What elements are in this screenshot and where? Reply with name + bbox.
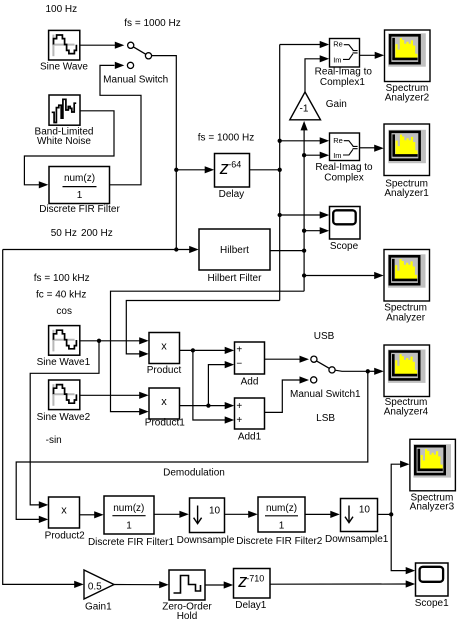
wire Delay1 to Scope1 input 2 [270, 580, 415, 587]
svg-text:Delay: Delay [219, 189, 245, 200]
block Delay z^-64 [215, 154, 250, 201]
wire Sine Wave to Manual Switch input 1 [80, 42, 125, 49]
gain Gain1 (0.5) triangle [84, 570, 114, 612]
block Spectrum Analyzer4 [384, 345, 430, 417]
manual switch Manual Switch [103, 42, 168, 85]
svg-text:Add1: Add1 [238, 431, 262, 442]
wire bus B to Spectrum Analyzer [304, 272, 384, 279]
svg-text:-710: -710 [246, 573, 264, 583]
block Scope [330, 207, 361, 252]
block Hilbert Filter [199, 229, 270, 284]
svg-text:Scope: Scope [330, 241, 359, 252]
svg-text:Product: Product [147, 365, 182, 376]
wire Product output to Add input 1 [180, 347, 235, 354]
wire bus A to Scope input 1 [280, 211, 330, 218]
junction Delay output on bus A [278, 168, 282, 172]
svg-text:Gain1: Gain1 [85, 601, 112, 612]
wire bus B bottom to Product1 input 2 [111, 291, 305, 415]
block Spectrum Analyzer1 [384, 124, 430, 199]
junction Product1 output [206, 403, 210, 407]
junction Hilbert input on switch bus [174, 247, 178, 251]
block Sine Wave (source) [40, 30, 88, 72]
svg-text:x: x [61, 505, 67, 517]
svg-text:Add: Add [241, 376, 259, 387]
junction bus B at Scope input 2 [302, 229, 306, 233]
svg-text:cos: cos [56, 306, 72, 317]
gain Gain (-1) triangle [290, 92, 347, 120]
wire Add output to Manual Switch1 input 1 [265, 356, 310, 363]
svg-text:10: 10 [359, 504, 371, 515]
svg-text:Analyzer: Analyzer [386, 313, 426, 324]
wire Real-Imag to Complex1 to Spectrum Analyzer2 [360, 52, 385, 59]
wire bus B vertical (Hilbert signal) [303, 129, 305, 292]
svg-text:Real-Imag to: Real-Imag to [315, 162, 373, 173]
wire horizontal into Hilbert Filter [3, 246, 199, 253]
wire Sine Wave2 to Product1 input 1 [80, 392, 149, 399]
svg-text:Im: Im [333, 151, 341, 160]
junction Manual Switch1 output [366, 369, 370, 373]
svg-text:Discrete FIR Filter1: Discrete FIR Filter1 [88, 537, 175, 548]
wire Gain output to Real-Imag to Complex1 Im input [305, 55, 329, 92]
svg-text:Scope1: Scope1 [415, 598, 449, 609]
wire cos carrier branch to Product2 input 1 [30, 341, 99, 509]
svg-text:fc = 40 kHz: fc = 40 kHz [36, 289, 86, 300]
svg-text:Complex1: Complex1 [320, 77, 365, 88]
annotation "50 Hz" "200 Hz" [51, 228, 113, 239]
block Product1 [145, 388, 185, 429]
svg-text:Im: Im [333, 55, 341, 64]
wire Discrete FIR Filter to Manual Switch input 2 [100, 62, 141, 185]
svg-text:Delay1: Delay1 [235, 600, 267, 611]
annotation "Demodulation" [163, 468, 225, 479]
wire to Spectrum Analyzer4 [368, 368, 384, 375]
wire Product output branch to Add1 input 2 [193, 350, 234, 423]
wire Hilbert output to bus B [270, 250, 304, 252]
svg-text:+: + [236, 401, 242, 412]
junction Hilbert output on bus B [302, 248, 306, 252]
wire Zero-Order Hold to Delay1 [205, 581, 233, 588]
svg-text:Manual Switch1: Manual Switch1 [290, 389, 361, 400]
wire bus A to Real-Imag to Complex1 Re input [280, 41, 330, 48]
junction bus B at Spectrum Analyzer input [302, 273, 306, 277]
svg-text:Sine Wave: Sine Wave [40, 61, 88, 72]
svg-text:x: x [161, 396, 167, 408]
svg-text:-sin: -sin [46, 435, 62, 446]
block Product2 [45, 497, 85, 541]
svg-text:1: 1 [77, 190, 83, 201]
svg-text:Downsample1: Downsample1 [325, 534, 389, 545]
svg-text:x: x [161, 340, 167, 352]
annotation "LSB" [316, 413, 335, 424]
svg-text:50 Hz: 50 Hz [51, 228, 77, 239]
wire Gain1 to Zero-Order Hold [114, 581, 169, 588]
block Spectrum Analyzer2 [385, 30, 431, 103]
annotation "fs = 100 kHz" [34, 273, 90, 284]
junction cos carrier branch [97, 339, 101, 343]
wire Downsample to Discrete FIR Filter2 [225, 511, 258, 518]
svg-text:num(z): num(z) [64, 173, 95, 184]
svg-text:Complex: Complex [324, 173, 363, 184]
wire Delay to bus A [250, 169, 280, 171]
wire SSB bus down to Product2 input 2 [16, 371, 368, 523]
junction Product output [191, 348, 195, 352]
block Band-Limited White Noise [35, 95, 94, 147]
annotation "fs = 1000 Hz" (source rate) [124, 18, 180, 29]
block Sine Wave1 (cos carrier) [37, 326, 91, 369]
junction Downsample1 output [389, 512, 393, 516]
svg-text:Demodulation: Demodulation [163, 468, 225, 479]
svg-text:fs = 100 kHz: fs = 100 kHz [34, 273, 90, 284]
svg-text:LSB: LSB [316, 413, 335, 424]
wire Manual Switch1 output to SSB bus [335, 370, 368, 371]
wire Product1 output branch to Add minus input [208, 361, 234, 406]
annotation "fc = 40 kHz" [36, 289, 86, 300]
svg-text:Sine Wave1: Sine Wave1 [37, 357, 91, 368]
block Discrete FIR Filter2 [236, 497, 323, 547]
annotation "USB" [314, 331, 335, 342]
svg-text:White Noise: White Noise [37, 136, 91, 147]
block Spectrum Analyzer3 [410, 439, 456, 512]
wire Product2 to Discrete FIR Filter1 [80, 511, 104, 518]
svg-text:Manual Switch: Manual Switch [103, 75, 168, 86]
svg-text:−: − [236, 359, 242, 370]
svg-text:Product1: Product1 [145, 418, 185, 429]
block Real-Imag to Complex [315, 133, 373, 184]
svg-text:USB: USB [314, 331, 335, 342]
block Discrete FIR Filter1 [88, 496, 175, 548]
wire Downsample1 output [378, 513, 392, 515]
wire Band-Limited White Noise to Discrete FIR Filter [24, 111, 114, 189]
junction bus A at Scope input 1 [278, 213, 282, 217]
annotation "fs = 1000 Hz" (delay rate) [198, 133, 254, 144]
svg-text:Downsample: Downsample [177, 535, 235, 546]
svg-text:Re: Re [333, 136, 343, 145]
svg-text:Analyzer3: Analyzer3 [410, 501, 455, 512]
svg-text:200 Hz: 200 Hz [81, 228, 113, 239]
wire bus A bottom to Product input 2 [126, 301, 279, 358]
block Add (USB sum) [235, 342, 265, 387]
block Sine Wave2 (-sin carrier) [37, 380, 91, 423]
svg-text:1: 1 [126, 521, 132, 532]
annotation "-sin" [46, 435, 62, 446]
svg-text:Product2: Product2 [45, 530, 85, 541]
svg-text:1: 1 [279, 521, 285, 532]
wire junction to Delay [176, 166, 214, 173]
block Add1 (LSB sum) [235, 398, 265, 442]
wire Product1 output to Add1 input 1 [180, 402, 235, 409]
junction bus A at Re input of Real-Imag to Complex [278, 139, 282, 143]
svg-text:10: 10 [209, 506, 221, 517]
block Downsample [177, 498, 235, 546]
svg-text:-1: -1 [300, 103, 309, 114]
wire junction to Scope1 input 1 [391, 514, 415, 574]
svg-text:num(z): num(z) [266, 503, 297, 514]
wire bus B to Real-Imag to Complex Im input [304, 152, 329, 159]
wire left comparison branch to Gain1 [3, 250, 84, 589]
svg-text:Analyzer2: Analyzer2 [385, 92, 430, 103]
wire Real-Imag to Complex to Spectrum Analyzer1 [360, 145, 384, 152]
wire bus B arrow into Gain [301, 121, 308, 130]
wire Manual Switch output bus down to Hilbert input junction [152, 56, 177, 250]
svg-text:fs = 1000 Hz: fs = 1000 Hz [124, 18, 180, 29]
junction bus B at Im input of Real-Imag to Complex [302, 153, 306, 157]
svg-text:Discrete FIR Filter2: Discrete FIR Filter2 [236, 536, 323, 547]
wire junction to Spectrum Analyzer3 [391, 461, 409, 515]
block Product [147, 333, 182, 377]
svg-text:+: + [236, 345, 242, 356]
block Discrete FIR Filter [39, 167, 120, 215]
svg-text:Analyzer4: Analyzer4 [384, 406, 429, 417]
wire bus A to Real-Imag to Complex Re input [280, 137, 330, 144]
junction delay-branch on switch bus [174, 168, 178, 172]
svg-text:100 Hz: 100 Hz [45, 4, 77, 15]
svg-text:-64: -64 [228, 160, 241, 170]
block Scope1 [415, 563, 449, 609]
annotation "cos" [56, 306, 72, 317]
svg-text:+: + [236, 415, 242, 426]
block Real-Imag to Complex1 [315, 39, 373, 88]
block Downsample1 [325, 499, 389, 546]
svg-text:Real-Imag to: Real-Imag to [315, 66, 373, 77]
annotation "100 Hz" [45, 4, 77, 15]
wire Add1 output to Manual Switch1 input 2 [265, 376, 310, 412]
svg-text:Sine Wave2: Sine Wave2 [37, 412, 91, 423]
svg-text:Hilbert Filter: Hilbert Filter [208, 273, 263, 284]
svg-text:0.5: 0.5 [88, 581, 102, 592]
block Zero-Order Hold [162, 570, 212, 622]
svg-text:Gain: Gain [326, 99, 347, 110]
block Spectrum Analyzer [384, 250, 430, 324]
wire Discrete FIR Filter2 to Downsample1 [305, 511, 340, 518]
manual switch Manual Switch1 [290, 356, 361, 400]
svg-text:Re: Re [333, 40, 343, 49]
svg-text:z: z [219, 158, 229, 178]
svg-text:Hilbert: Hilbert [220, 245, 249, 256]
wire bus A vertical (delayed signal) [279, 45, 281, 301]
svg-text:Analyzer1: Analyzer1 [384, 188, 429, 199]
wire Sine Wave1 to Product input 1 [80, 337, 149, 344]
block Delay1 z^-710 [234, 569, 271, 612]
wire bus B to Scope input 2 [304, 227, 329, 234]
svg-text:Discrete FIR Filter: Discrete FIR Filter [39, 204, 120, 215]
svg-text:num(z): num(z) [113, 503, 144, 514]
wire Discrete FIR Filter1 to Downsample [154, 511, 189, 518]
svg-text:Hold: Hold [177, 611, 198, 622]
svg-text:fs = 1000 Hz: fs = 1000 Hz [198, 133, 254, 144]
